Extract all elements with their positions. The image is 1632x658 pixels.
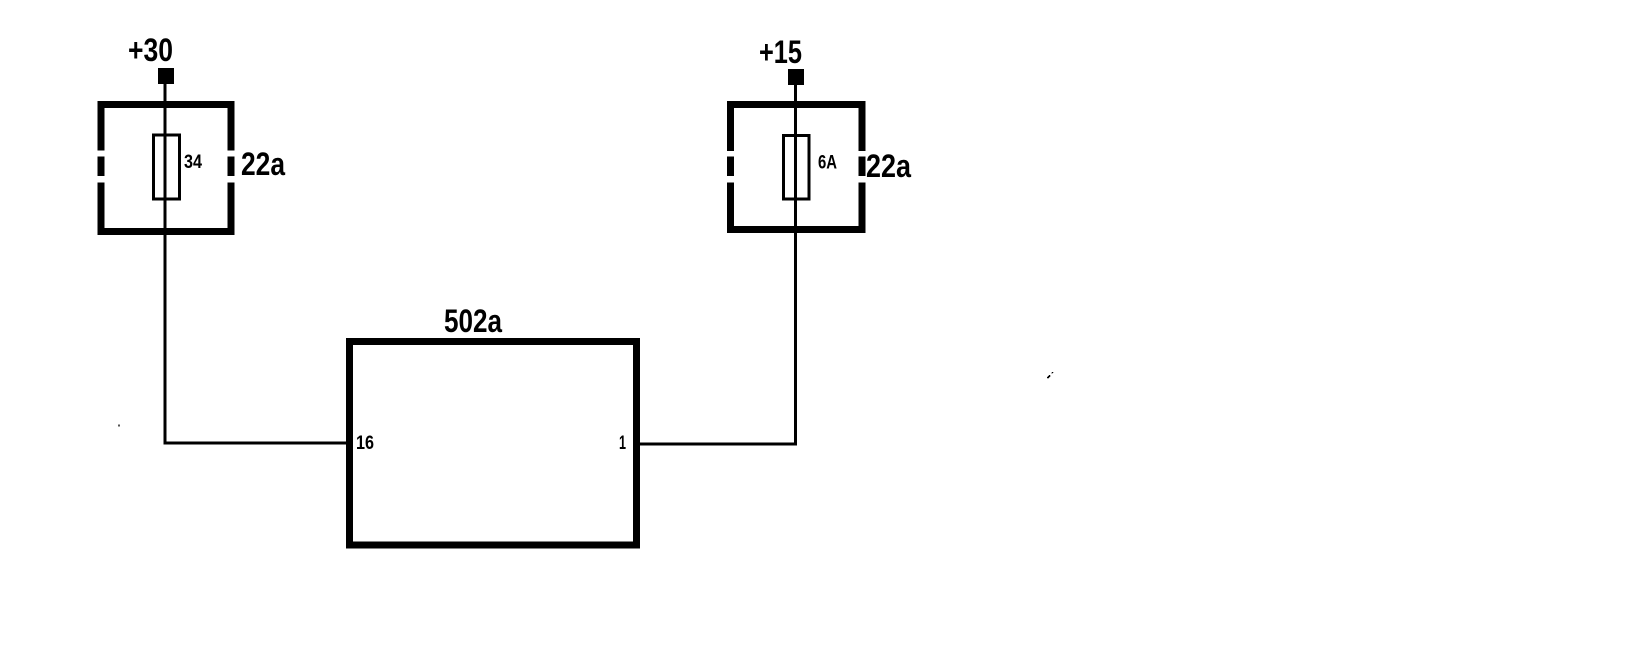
fuse holder box 22a (right, dashed) xyxy=(727,101,866,233)
speck artifact right area xyxy=(1047,372,1054,379)
wire from fuse 6A to pin 1 of 502a xyxy=(634,443,797,446)
svg-text:1: 1 xyxy=(619,433,626,454)
fuse 34 symbol xyxy=(154,135,180,199)
terminal square +30 xyxy=(158,68,174,84)
wire from +15 terminal down through fuse to junction xyxy=(794,85,797,445)
svg-text:+30: +30 xyxy=(128,32,173,68)
svg-text:16: 16 xyxy=(356,433,374,454)
svg-text:22a: 22a xyxy=(241,146,285,182)
component box 502a xyxy=(350,342,637,546)
svg-text:+15: +15 xyxy=(759,34,802,70)
terminal square +15 xyxy=(788,69,804,85)
fuse 6A symbol xyxy=(784,136,810,200)
svg-text:22a: 22a xyxy=(866,148,911,184)
speck artifact near wire xyxy=(118,425,120,427)
wire from fuse 34 to pin 16 of 502a xyxy=(164,442,351,445)
svg-text:34: 34 xyxy=(184,152,202,173)
svg-text:6A: 6A xyxy=(818,153,837,174)
svg-text:502a: 502a xyxy=(444,303,502,339)
wire from +30 terminal down through fuse to junction xyxy=(164,84,167,444)
fuse holder box 22a (left, dashed) xyxy=(98,101,235,235)
